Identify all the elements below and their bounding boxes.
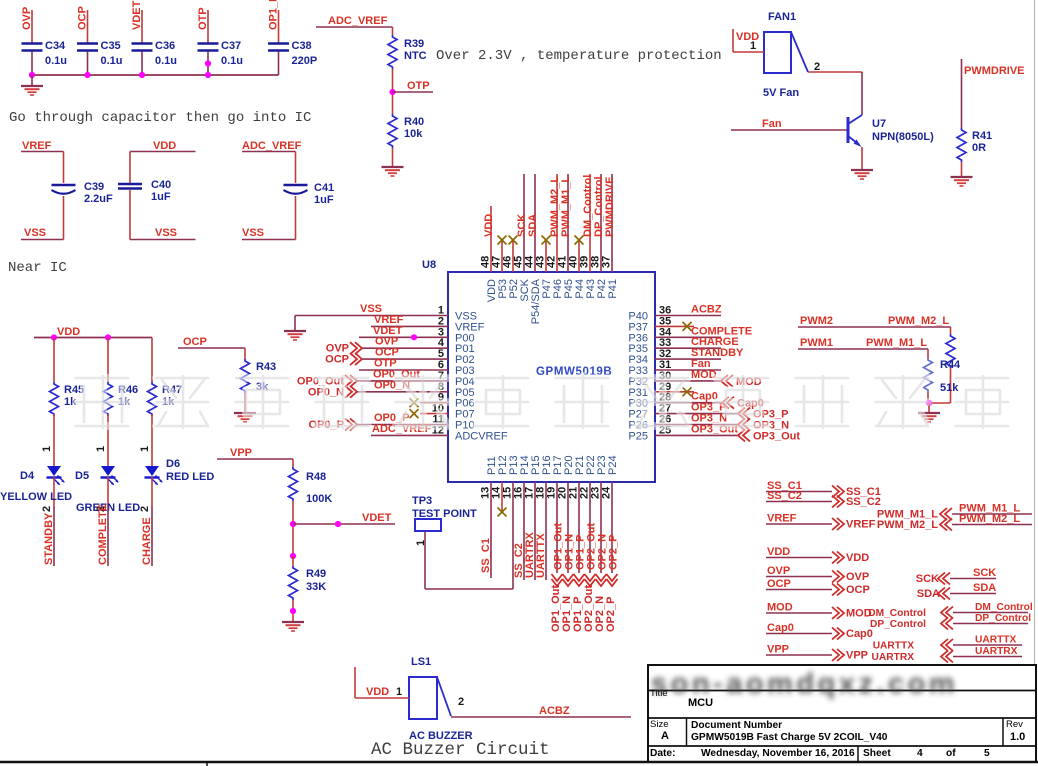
svg-text:VSS: VSS [155, 227, 177, 239]
port Cap0 (right column) [766, 622, 873, 640]
port OP1_P from pin 21 [572, 482, 587, 632]
title block text Size/Document Number/Rev [650, 719, 1025, 743]
port OP1_Out from pin 19 [550, 482, 565, 632]
svg-text:1: 1 [95, 446, 107, 452]
svg-text:C40: C40 [151, 179, 171, 191]
ground (R43) [234, 393, 256, 422]
svg-text:YELLOW LED: YELLOW LED [0, 491, 72, 503]
svg-text:NPN(8050L): NPN(8050L) [872, 131, 934, 143]
svg-text:5: 5 [984, 748, 990, 759]
svg-text:of: of [946, 748, 956, 759]
wire DM_Control to pin 39 [582, 174, 594, 272]
resistor R44 [924, 334, 962, 403]
svg-text:D4: D4 [20, 470, 35, 482]
svg-text:OCP: OCP [325, 354, 349, 366]
wire SCK to pin 45 [516, 174, 528, 272]
buzzer LS1 [409, 656, 473, 742]
resistor R43 [241, 348, 277, 393]
svg-text:VDD: VDD [846, 552, 869, 564]
wire UARTTX from pin 18 [535, 482, 547, 580]
wire STANDBY from pin 32 [655, 347, 744, 359]
port OCP to pin 5 [325, 347, 448, 366]
wire ADC_VREF to pin 12 [371, 423, 448, 436]
junction dots on capacitor bus [29, 60, 211, 78]
svg-text:D5: D5 [75, 470, 89, 482]
ground (pin 1 VSS) [284, 331, 306, 340]
svg-text:24: 24 [601, 486, 613, 499]
svg-text:DP_Control: DP_Control [870, 619, 926, 630]
no-connect pin 9 [410, 398, 449, 407]
svg-text:Wednesday, November 16, 2016: Wednesday, November 16, 2016 [701, 748, 855, 759]
svg-text:VDD: VDD [57, 326, 80, 338]
resistor R49 [289, 553, 327, 600]
svg-text:Size: Size [650, 719, 668, 730]
svg-text:PWM_M2_L: PWM_M2_L [877, 519, 938, 531]
port Cap0 from pin 28 [655, 391, 764, 410]
svg-text:51k: 51k [940, 382, 959, 394]
node ACBZ (LS1 pin 2) [451, 696, 631, 717]
U8 internal right pin names [628, 311, 648, 443]
capacitor C38 [268, 0, 318, 75]
fan FAN1 [763, 11, 808, 99]
svg-text:Sheet: Sheet [863, 748, 891, 759]
svg-text:VPP: VPP [230, 447, 252, 459]
svg-text:VDD: VDD [153, 140, 176, 152]
svg-text:ACBZ: ACBZ [539, 705, 570, 717]
resistor R39 [388, 27, 427, 69]
svg-text:R39: R39 [404, 38, 424, 50]
node VDD (FAN1 pin 1) [733, 29, 764, 52]
svg-text:A: A [661, 730, 669, 742]
wire CHARGE from pin 33 [655, 336, 739, 348]
svg-text:VREF: VREF [22, 140, 52, 152]
svg-text:SDA: SDA [973, 582, 996, 594]
svg-text:OTP: OTP [407, 80, 430, 92]
svg-text:100K: 100K [306, 493, 332, 505]
svg-text:RED LED: RED LED [166, 471, 214, 483]
svg-text:Over 2.3V , temperature protec: Over 2.3V , temperature protection [436, 48, 722, 64]
ground (U7 emitter) [851, 147, 873, 179]
svg-text:1: 1 [41, 446, 53, 452]
port SDA (far right) [917, 582, 997, 600]
no-connect pin 43 [542, 236, 551, 273]
watermark over title block [651, 668, 958, 700]
LED D6 [139, 414, 214, 506]
svg-text:VDD: VDD [483, 214, 495, 237]
no-connect pin 46 [509, 236, 518, 273]
svg-text:COMPLETE: COMPLETE [97, 504, 109, 565]
svg-text:2: 2 [41, 506, 53, 512]
U8 internal bottom pin names [486, 455, 619, 475]
svg-text:C34: C34 [45, 40, 66, 52]
svg-text:AC Buzzer Circuit: AC Buzzer Circuit [371, 740, 550, 760]
svg-text:PWMDRIVE: PWMDRIVE [964, 65, 1025, 77]
svg-text:FAN1: FAN1 [768, 11, 796, 23]
no-connect pin 40 [575, 236, 584, 273]
svg-text:VDET: VDET [131, 0, 143, 30]
svg-text:5V Fan: 5V Fan [763, 87, 799, 99]
svg-text:2: 2 [458, 696, 464, 708]
wire COMPLETE from pin 34 [655, 325, 752, 337]
node OTP junction [389, 69, 433, 114]
svg-text:SCK: SCK [973, 567, 996, 579]
port OP0_Out to pin 7 [297, 368, 448, 387]
svg-text:R49: R49 [306, 568, 326, 580]
port OP2_P from pin 24 [605, 482, 620, 632]
port MOD from pin 30 [655, 369, 762, 388]
svg-text:R43: R43 [256, 361, 276, 373]
svg-text:Rev: Rev [1006, 719, 1023, 730]
svg-text:DP_Control: DP_Control [975, 613, 1031, 624]
port OCP (right column) [766, 578, 870, 596]
svg-text:1.0: 1.0 [1010, 731, 1025, 743]
svg-text:37: 37 [601, 256, 613, 268]
svg-text:C41: C41 [314, 182, 334, 194]
U8 internal left pin names [455, 311, 508, 443]
wire PWM_M1_L to pin 41 [560, 174, 572, 272]
port PWM_M2_L (far right) [877, 513, 1032, 531]
wire SDA to pin 44 [527, 174, 539, 272]
LED D5 [75, 414, 140, 514]
port OVP (right column) [766, 565, 869, 583]
U8 bottom pin numbers 13-24 [480, 486, 613, 499]
svg-text:1: 1 [139, 446, 151, 452]
wire VDD to pin 48 [483, 206, 495, 272]
port UARTRX (far right) [872, 646, 1022, 663]
wire SS_C2 from pin 16 [513, 482, 525, 580]
svg-text:2.2uF: 2.2uF [84, 193, 113, 205]
svg-text:OP2_P: OP2_P [608, 535, 620, 570]
LED D4 [0, 414, 72, 506]
port VPP (right column) [766, 644, 868, 662]
node STANDBY (LED cathode) [41, 506, 55, 566]
svg-text:SS_C1: SS_C1 [480, 538, 492, 573]
svg-text:0R: 0R [972, 142, 986, 154]
svg-text:SS_C2: SS_C2 [846, 496, 881, 508]
capacitor C34 [21, 7, 67, 75]
svg-text:1: 1 [396, 686, 402, 698]
svg-text:PWM_M2_L: PWM_M2_L [888, 315, 949, 327]
svg-text:OVP: OVP [21, 7, 33, 30]
svg-text:ACBZ: ACBZ [691, 304, 722, 316]
ground (R49) [282, 600, 304, 631]
resistor R45 [50, 338, 85, 417]
svg-text:VDD: VDD [767, 546, 790, 558]
svg-text:33K: 33K [306, 581, 326, 593]
capacitor C40 [118, 140, 196, 240]
wire DP_Control to pin 38 [593, 174, 605, 272]
page border right [1034, 0, 1036, 666]
svg-text:OCP: OCP [183, 336, 207, 348]
capacitor C41 [242, 140, 334, 240]
svg-text:PWM_M2_L: PWM_M2_L [959, 513, 1020, 525]
svg-text:10k: 10k [404, 128, 423, 140]
node VDET tap [290, 501, 395, 556]
svg-text:C36: C36 [155, 40, 175, 52]
svg-text:P25: P25 [628, 430, 648, 442]
capacitor C35 [77, 6, 123, 75]
test point TP3 [412, 495, 477, 546]
svg-text:UARTTX: UARTTX [975, 635, 1017, 646]
title block frame [648, 665, 1036, 762]
wire VDET to pin 3 [359, 325, 448, 341]
svg-text:P24: P24 [607, 455, 619, 475]
page border bottom [0, 762, 1038, 766]
svg-text:R48: R48 [306, 471, 326, 483]
svg-text:VDD: VDD [366, 686, 389, 698]
ground (R44) [918, 400, 940, 422]
svg-text:OP1_P: OP1_P [268, 0, 280, 30]
svg-text:C38: C38 [292, 40, 312, 52]
svg-text:VSS: VSS [242, 227, 264, 239]
no-connect pin 10 [410, 409, 449, 418]
svg-text:OCP: OCP [767, 578, 791, 590]
port VDD (right column) [766, 546, 869, 564]
svg-text:0.1u: 0.1u [221, 55, 243, 67]
svg-text:U8: U8 [422, 259, 436, 271]
svg-text:0.1u: 0.1u [155, 55, 177, 67]
svg-text:OVP: OVP [846, 571, 869, 583]
svg-text:PWM_M1_L: PWM_M1_L [560, 176, 572, 237]
svg-text:ADCVREF: ADCVREF [455, 430, 508, 442]
svg-text:R41: R41 [972, 130, 992, 142]
svg-text:son-aomdqxz.com: son-aomdqxz.com [651, 668, 958, 700]
svg-text:PWM1: PWM1 [800, 337, 833, 349]
op-amp U8 GPMW5019B body [422, 259, 655, 482]
svg-text:UARTTX: UARTTX [535, 533, 547, 578]
no-connect pin 29 [655, 387, 694, 396]
svg-text:PWM_M1_L: PWM_M1_L [866, 337, 927, 349]
svg-text:LS1: LS1 [411, 656, 431, 668]
node CHARGE (LED cathode) [139, 506, 153, 566]
port OP1_N from pin 20 [561, 482, 576, 632]
wire Fan from pin 31 [655, 358, 721, 370]
ground (capacitor bank) [21, 75, 43, 95]
svg-text:VPP: VPP [767, 644, 789, 656]
transistor U7 [848, 115, 934, 147]
port OP3_P from pin 27 [655, 402, 788, 421]
port OP3_Out from pin 25 [655, 423, 800, 442]
svg-text:Cap0: Cap0 [846, 628, 873, 640]
svg-text:4: 4 [917, 748, 923, 759]
node PWM1 / PWM_M1_L [798, 337, 928, 358]
svg-text:Cap0: Cap0 [767, 622, 794, 634]
port DM_Control (far right) [868, 602, 1033, 619]
svg-text:VREF: VREF [846, 519, 876, 531]
svg-text:SCK: SCK [916, 573, 939, 585]
svg-text:MOD: MOD [767, 602, 793, 614]
port SS_C2 (right column) [766, 490, 881, 508]
port SCK (far right) [916, 567, 997, 585]
port OP2_N from pin 23 [594, 482, 609, 632]
port OP2_Out from pin 22 [583, 482, 598, 632]
svg-text:GPMW5019B Fast Charge 5V 2COIL: GPMW5019B Fast Charge 5V 2COIL_V40 [691, 732, 888, 743]
svg-text:OCP: OCP [846, 584, 870, 596]
title block text Title/MCU [650, 688, 713, 709]
svg-text:C39: C39 [84, 181, 104, 193]
wire TP3 pin 1 to P13 [425, 531, 513, 589]
resistor R41 [957, 128, 992, 162]
svg-text:VPP: VPP [846, 650, 868, 662]
svg-text:SDA: SDA [917, 588, 940, 600]
svg-text:PWM2: PWM2 [800, 315, 833, 327]
svg-text:NTC: NTC [404, 50, 427, 62]
svg-text:DM_Control: DM_Control [868, 608, 926, 619]
watermark band [76, 376, 1008, 428]
svg-text:VSS: VSS [24, 227, 46, 239]
wire FAN1 pin 2 to U7 collector [808, 61, 862, 115]
node Fan (U7 base) [731, 118, 847, 130]
svg-text:1uF: 1uF [314, 194, 334, 206]
port DP_Control (far right) [870, 613, 1031, 630]
svg-text:PWMDRIVE: PWMDRIVE [604, 177, 616, 238]
node VPP (divider) [217, 447, 293, 459]
svg-text:ADC_VREF: ADC_VREF [242, 140, 302, 152]
U8 left pin numbers 1-12 [432, 305, 445, 437]
svg-text:Date:: Date: [650, 748, 675, 759]
wire SS_C1 from pin 13 [480, 482, 492, 578]
wire UARTRX from pin 17 [524, 482, 536, 580]
wire VREF to pin 2 [371, 314, 448, 327]
wire PWMDRIVE to pin 37 [604, 174, 616, 272]
port MOD (right column) [766, 602, 872, 620]
svg-text:STANDBY: STANDBY [43, 512, 55, 565]
wire pin 15 to TP3 [512, 482, 514, 589]
svg-text:UARTTX: UARTTX [873, 641, 915, 652]
ground (R41) [951, 162, 973, 186]
svg-text:VREF: VREF [767, 513, 797, 525]
svg-text:Go through capacitor then go i: Go through capacitor then go into IC [9, 110, 311, 126]
port SS_C1 (right column) [766, 480, 881, 498]
svg-text:220P: 220P [292, 55, 318, 67]
port VREF (right column) [766, 513, 876, 531]
svg-text:OP2_P: OP2_P [605, 597, 617, 632]
resistor R40 [388, 114, 424, 148]
resistor R47 [148, 338, 183, 417]
port UARTTX (far right) [873, 635, 1022, 652]
node COMPLETE (LED cathode) [95, 504, 109, 566]
ground (R40) [382, 148, 404, 176]
svg-text:C35: C35 [101, 40, 121, 52]
resistor R48 [289, 459, 333, 505]
svg-text:2: 2 [139, 506, 151, 512]
node PWM2 / PWM_M2_L [798, 315, 951, 334]
svg-text:R44: R44 [940, 359, 961, 371]
U8 right pin numbers 36-25 [659, 305, 672, 437]
node OCP (R43) [178, 336, 245, 348]
svg-text:Fan: Fan [762, 118, 782, 130]
svg-text:1uF: 1uF [151, 191, 171, 203]
svg-text:DM_Control: DM_Control [975, 602, 1033, 613]
node VDD (LED bus) [34, 326, 152, 341]
svg-text:UARTRX: UARTRX [872, 652, 915, 663]
wire PWM_M2_L to pin 42 [549, 174, 561, 272]
svg-text:OCP: OCP [77, 6, 89, 30]
title block text Date/Sheet [650, 748, 990, 759]
svg-text:P41: P41 [607, 279, 619, 299]
capacitor C37 [197, 7, 243, 75]
port OP0_P to pin 11 [309, 412, 448, 431]
svg-text:C37: C37 [221, 40, 241, 52]
U8 internal top pin names [486, 278, 619, 324]
svg-text:0.1u: 0.1u [45, 55, 67, 67]
svg-text:OTP: OTP [197, 7, 209, 30]
capacitor C39 [21, 140, 113, 240]
svg-text:0.1u: 0.1u [101, 55, 123, 67]
wire ACBZ from pin 36 [655, 304, 722, 316]
no-connect pin 35 [655, 322, 694, 331]
svg-text:OP3_Out: OP3_Out [753, 430, 800, 442]
svg-text:ADC_VREF: ADC_VREF [328, 15, 388, 27]
no-connect pin 14 [498, 482, 507, 517]
port OVP to pin 4 [326, 336, 448, 355]
wire OTP to pin 6 [359, 358, 448, 371]
U8 top pin numbers 48-37 [480, 255, 613, 268]
resistor R46 [104, 338, 139, 417]
svg-text:Near IC: Near IC [8, 260, 67, 276]
wire GND bus under C34-C38 [32, 74, 279, 76]
svg-text:Document Number: Document Number [691, 720, 782, 731]
node ADC_VREF (thermistor) [316, 15, 393, 27]
port OP0_N to pin 8 [308, 379, 448, 398]
no-connect pin 47 [498, 236, 507, 273]
svg-text:CHARGE: CHARGE [141, 517, 153, 565]
svg-text:U7: U7 [872, 118, 886, 130]
capacitor C36 [131, 0, 177, 75]
svg-text:VDET: VDET [362, 512, 392, 524]
svg-text:R40: R40 [404, 116, 424, 128]
node VDD (LS1 pin 1) [355, 667, 409, 698]
svg-text:SS_C2: SS_C2 [767, 490, 802, 502]
wire VSS to pin 1 and ground [295, 303, 448, 331]
svg-text:D6: D6 [166, 458, 180, 470]
svg-text:1: 1 [750, 40, 756, 52]
svg-text:SDA: SDA [527, 214, 539, 237]
port PWM_M1_L (far right) [877, 503, 1032, 521]
svg-text:TP3: TP3 [412, 495, 432, 507]
port OP3_N from pin 26 [655, 413, 789, 432]
svg-text:OVP: OVP [767, 565, 790, 577]
node PWMDRIVE [962, 59, 1025, 128]
svg-text:UARTRX: UARTRX [975, 646, 1018, 657]
